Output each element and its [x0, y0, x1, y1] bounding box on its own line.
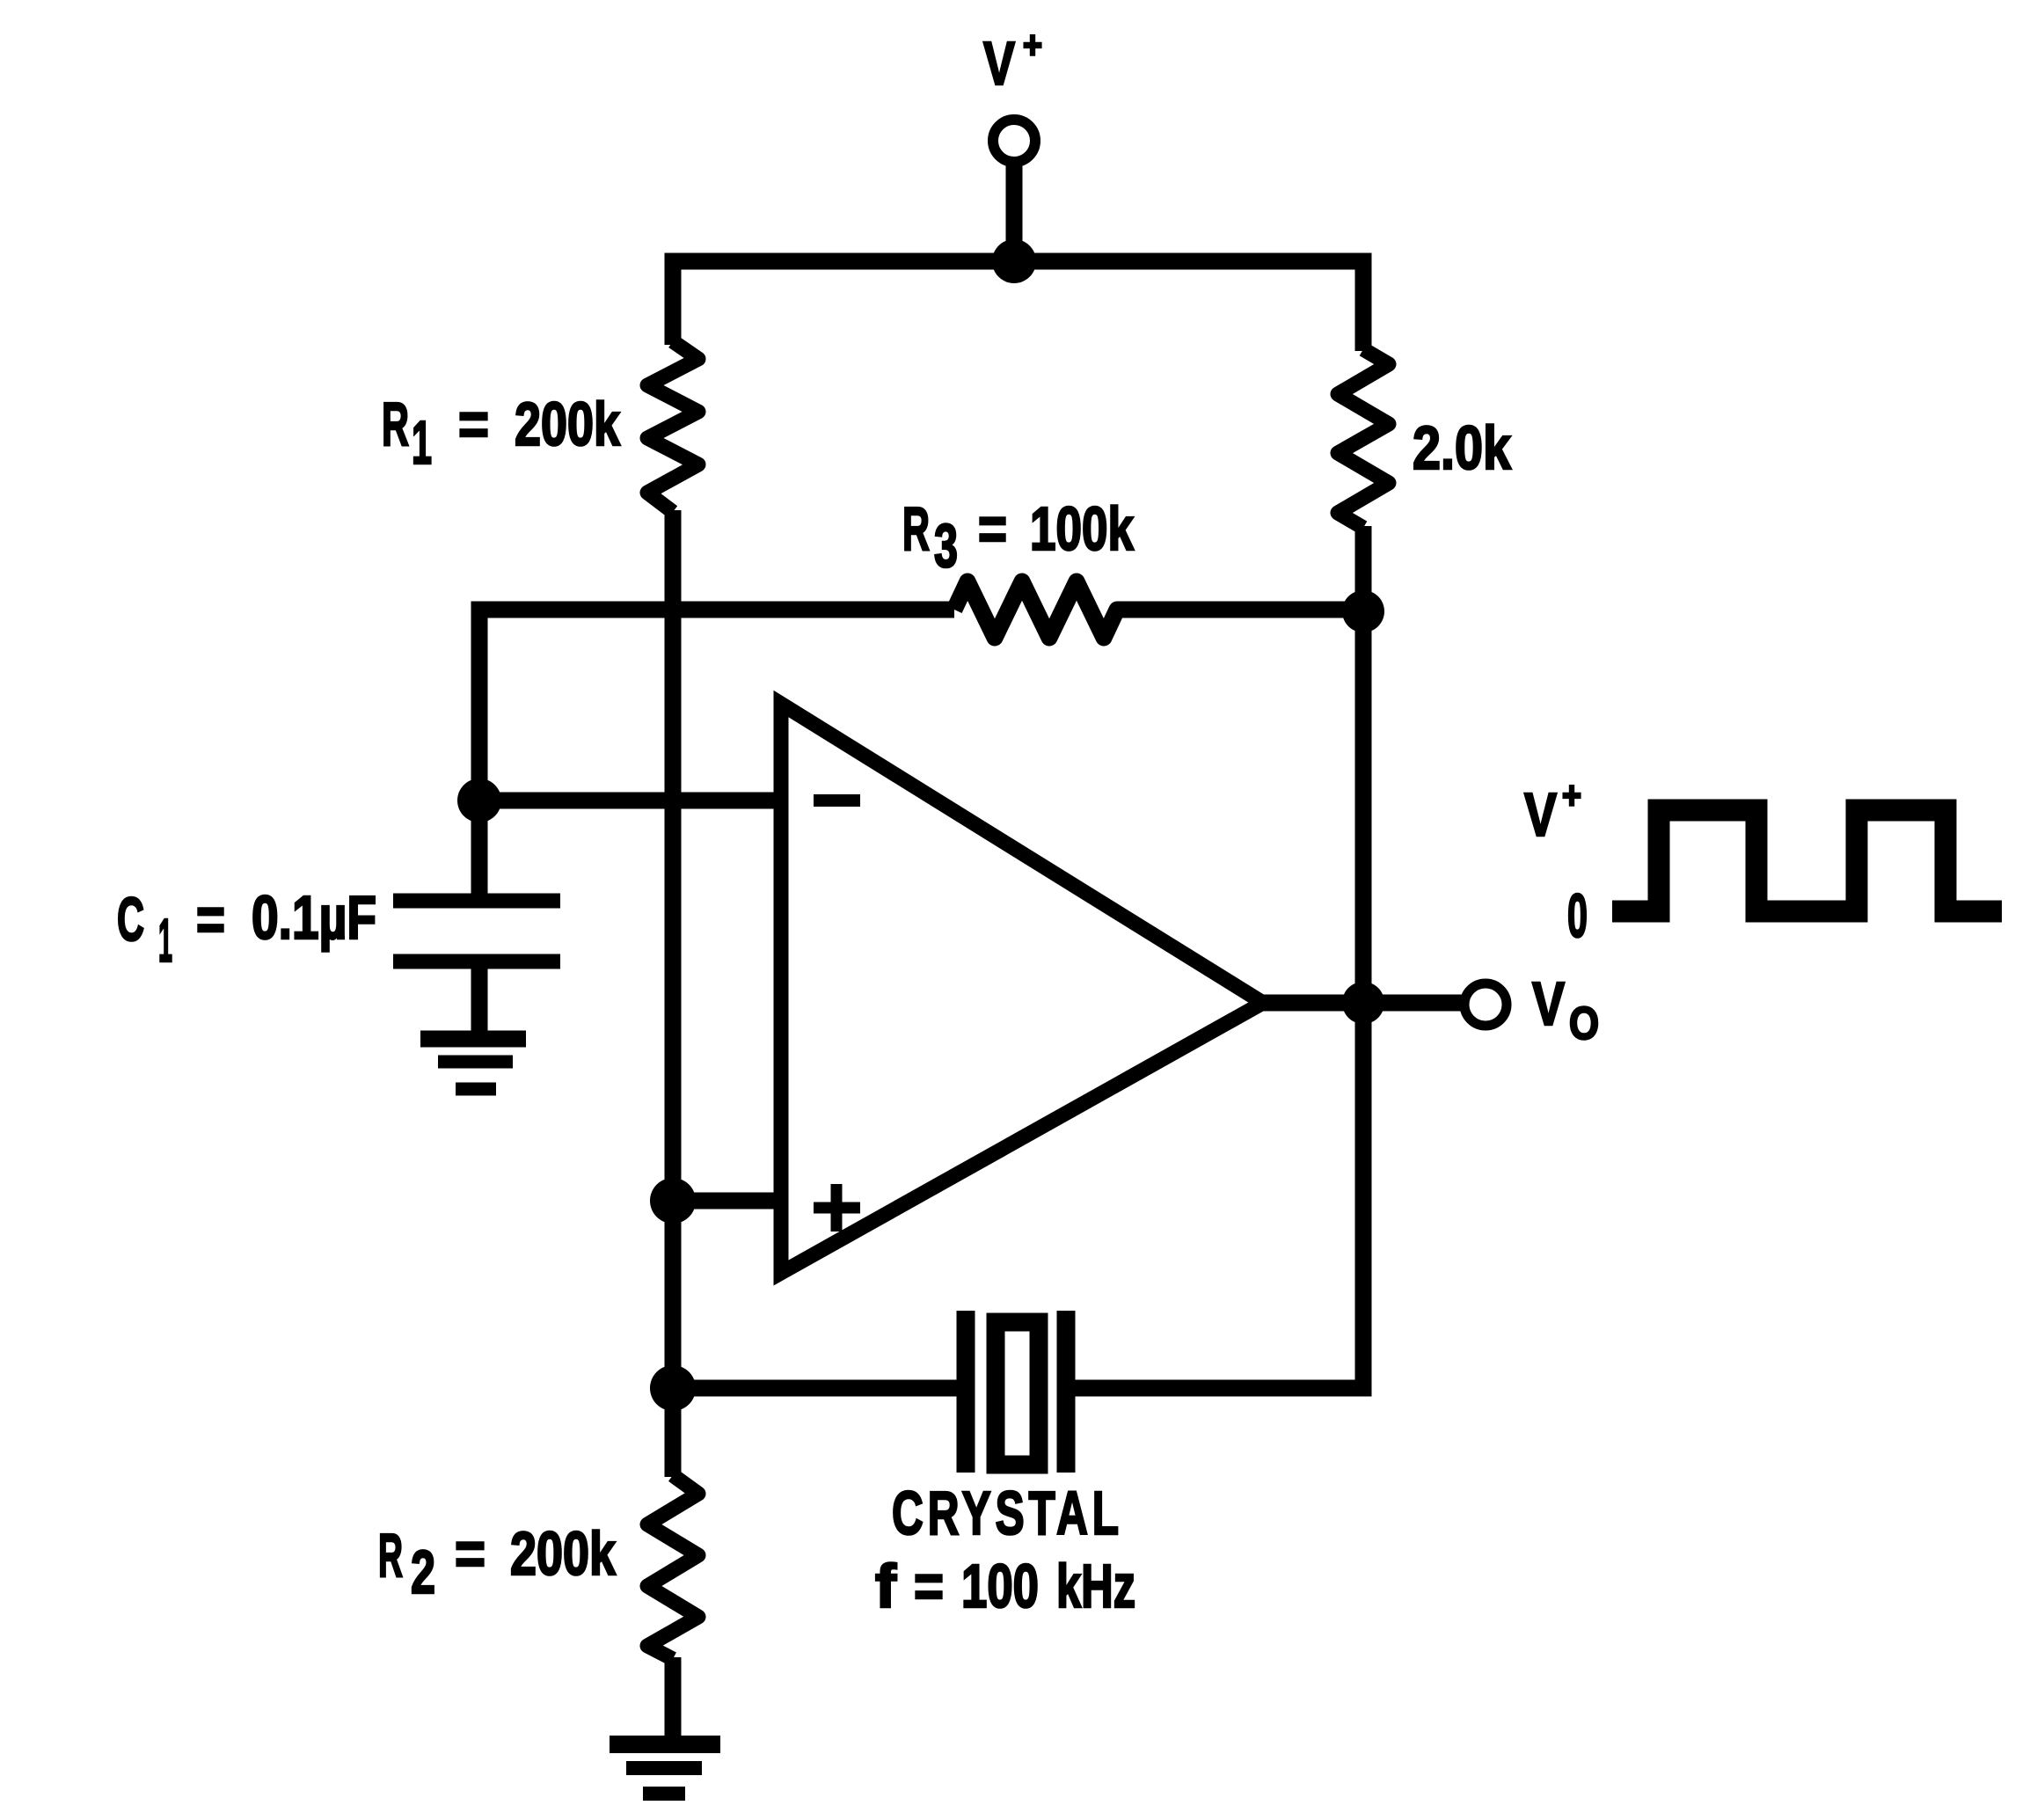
svg-text:100: 100 — [961, 1552, 1039, 1620]
svg-text:1: 1 — [158, 906, 172, 975]
svg-text:C: C — [117, 885, 144, 954]
svg-text:+: + — [1562, 774, 1581, 817]
svg-text:0.1µF: 0.1µF — [252, 883, 376, 952]
svg-text:=: = — [458, 390, 489, 458]
svg-text:200k: 200k — [515, 390, 620, 458]
svg-text:2.0k: 2.0k — [1413, 413, 1511, 482]
svg-text:=: = — [914, 1552, 944, 1620]
svg-text:=: = — [978, 494, 1007, 563]
svg-text:R: R — [382, 390, 409, 458]
svg-text:3: 3 — [934, 511, 958, 580]
svg-text:1: 1 — [412, 408, 432, 477]
svg-text:V: V — [1532, 969, 1565, 1038]
svg-text:R: R — [902, 494, 930, 563]
svg-text:200k: 200k — [510, 1519, 616, 1588]
svg-text:0: 0 — [1567, 881, 1588, 950]
svg-text:=: = — [196, 885, 225, 954]
svg-text:2: 2 — [411, 1538, 435, 1606]
svg-text:CRYSTAL: CRYSTAL — [892, 1479, 1123, 1547]
svg-text:+: + — [1023, 24, 1042, 67]
svg-text:V: V — [983, 29, 1015, 98]
svg-text:O: O — [1569, 998, 1599, 1049]
svg-text:V: V — [1524, 780, 1557, 849]
svg-text:f: f — [875, 1552, 897, 1620]
svg-text:=: = — [455, 1519, 486, 1588]
svg-text:100k: 100k — [1030, 494, 1134, 563]
svg-text:R: R — [378, 1521, 403, 1590]
svg-text:kHz: kHz — [1056, 1552, 1135, 1620]
